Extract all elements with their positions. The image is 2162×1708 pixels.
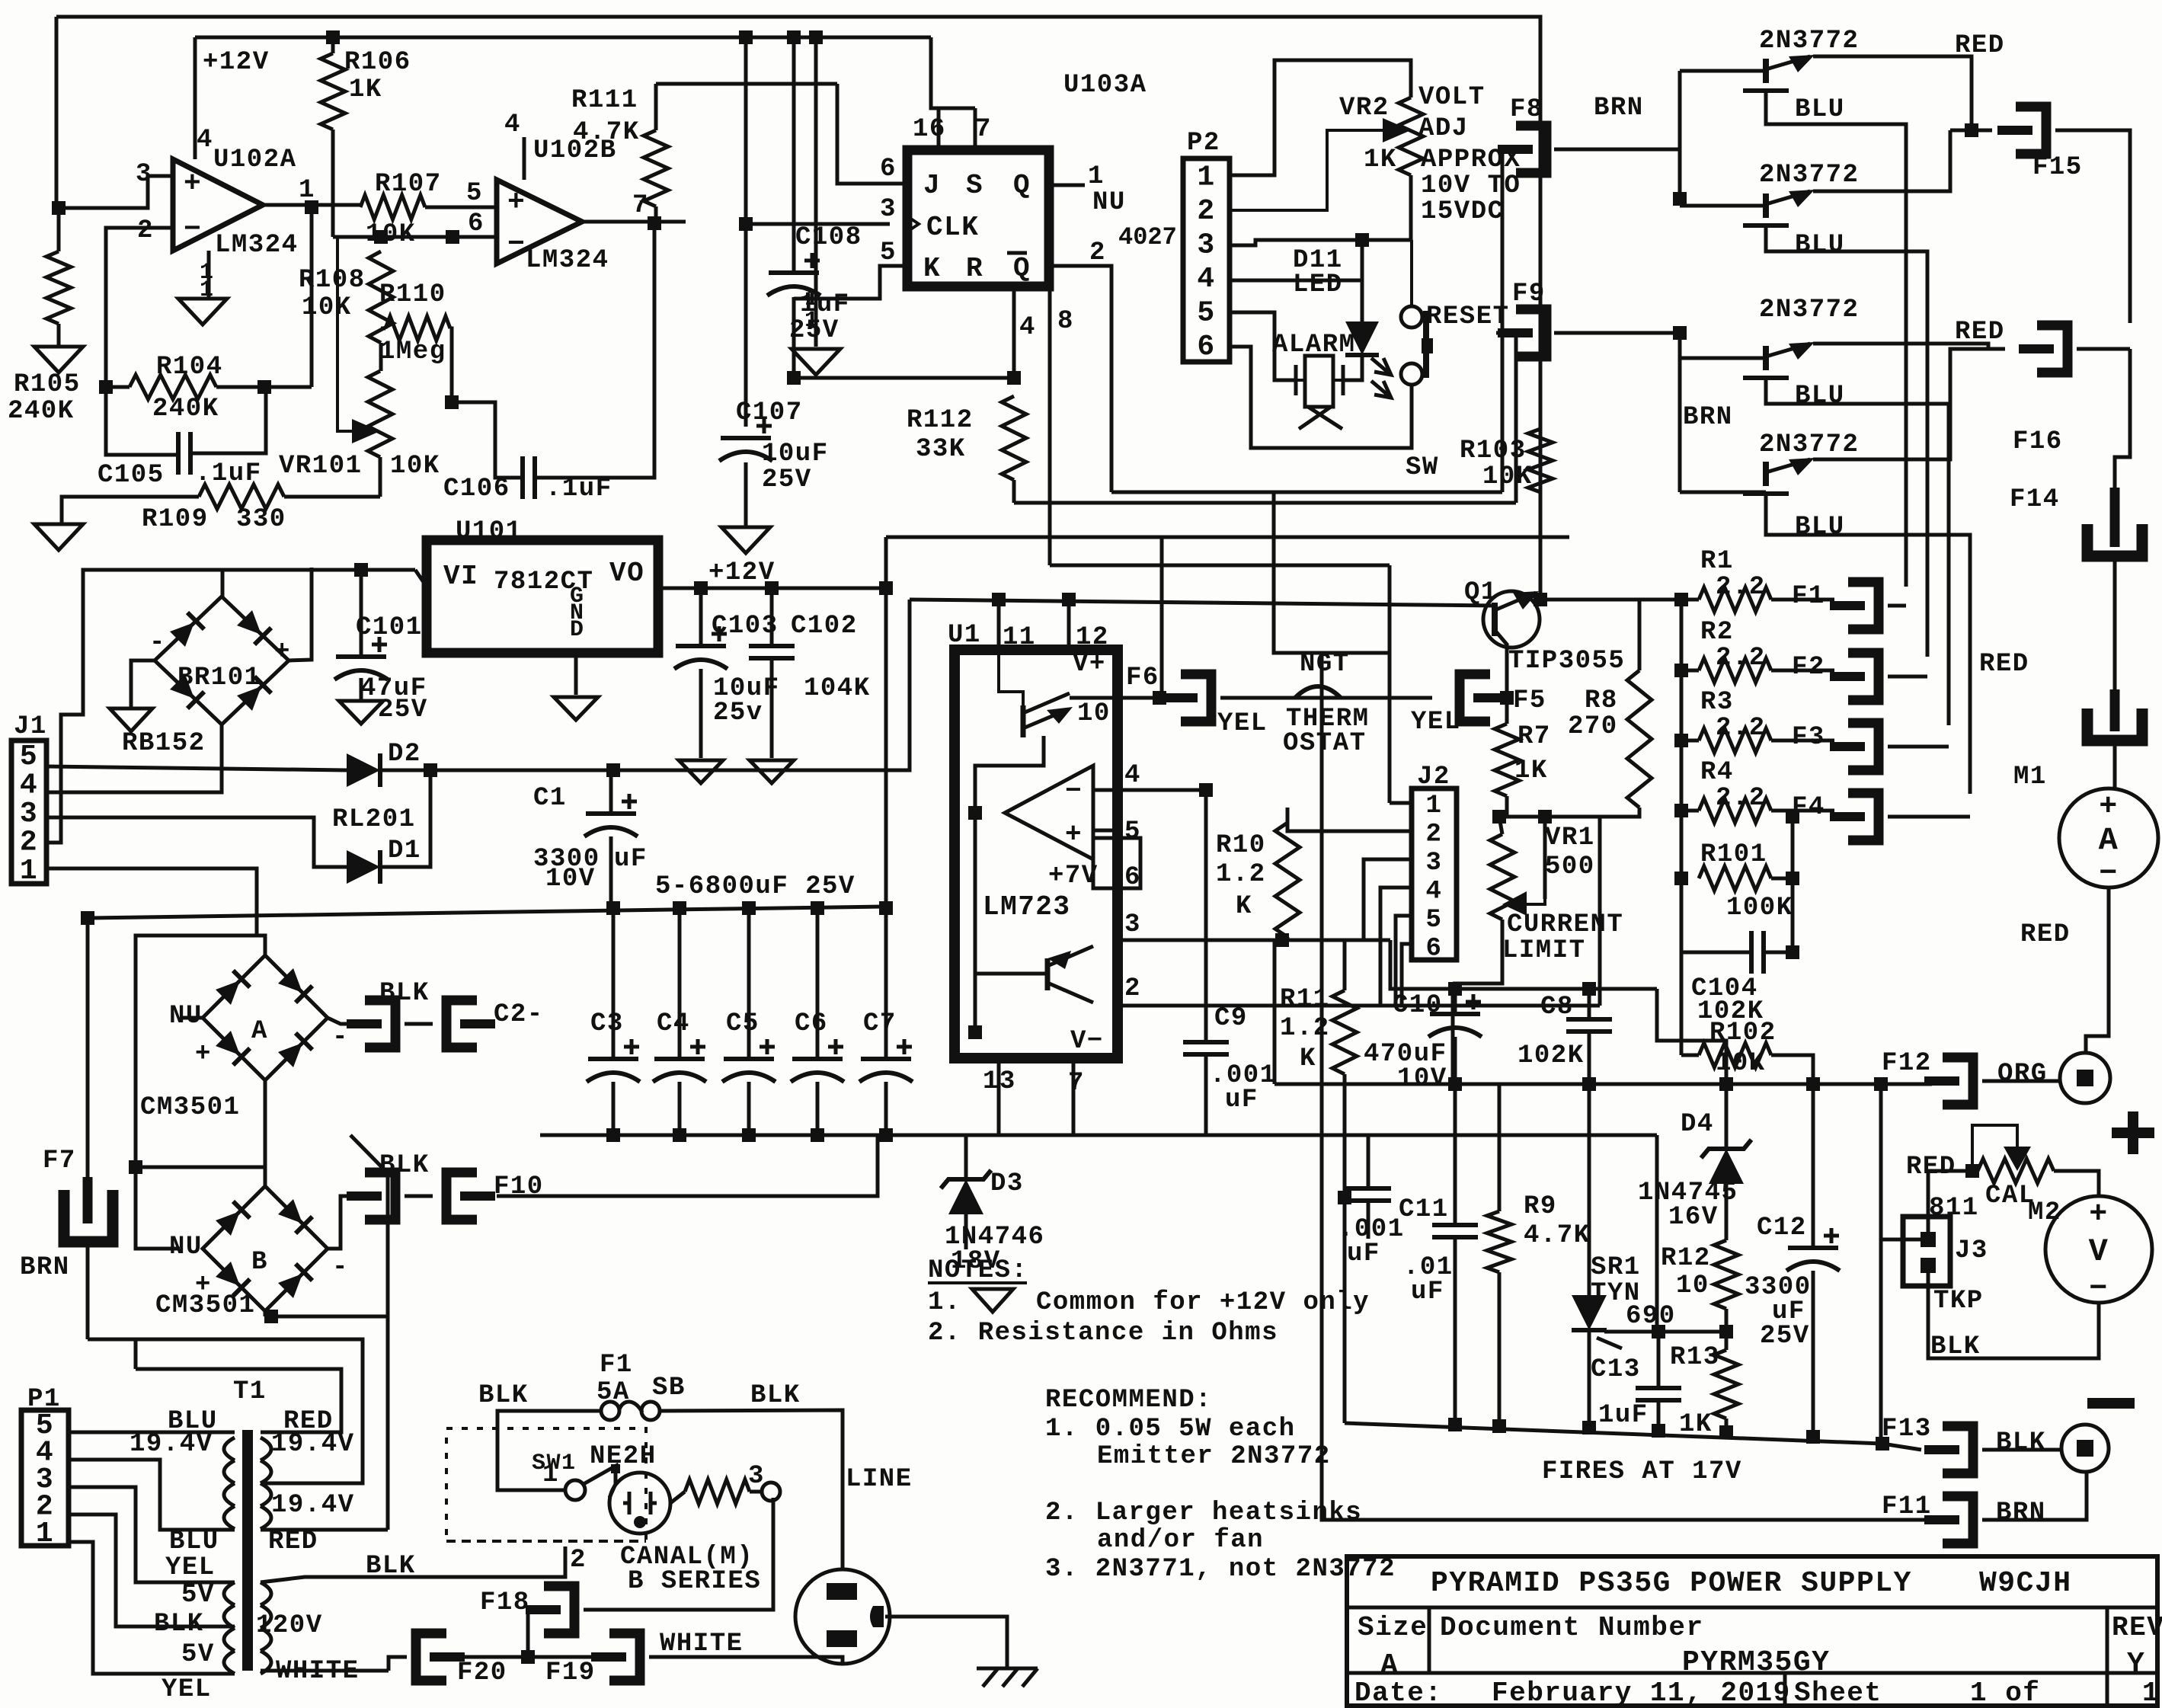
svg-text:V+: V+ xyxy=(1073,650,1106,679)
label BLU e3 xyxy=(1795,382,1845,411)
fuse F1 xyxy=(1830,582,1879,629)
wire C12 riser xyxy=(1812,1084,1815,1246)
svg-text:TKP: TKP xyxy=(1933,1287,1984,1316)
label 5V b xyxy=(181,1640,215,1669)
wire pin2 feedback xyxy=(106,228,178,455)
wire F20 out xyxy=(446,1655,528,1659)
wire C102 down xyxy=(770,658,774,758)
label F4 xyxy=(1792,793,1825,822)
label WHITE out xyxy=(0,0,1,1)
label F12 xyxy=(1882,1049,1932,1078)
wire neon left xyxy=(609,1484,616,1498)
svg-text:D1: D1 xyxy=(388,836,421,865)
title size xyxy=(1358,1612,1428,1643)
svg-text:330: 330 xyxy=(236,505,286,534)
svg-text:FIRES AT 17V: FIRES AT 17V xyxy=(1542,1457,1742,1486)
svg-text:RESET: RESET xyxy=(1426,302,1510,331)
label YEL u xyxy=(165,1553,216,1582)
label J1 xyxy=(14,712,47,741)
wire R8 top xyxy=(1638,600,1642,670)
wire M2 bottom loop xyxy=(1928,1265,2099,1358)
wire C107 riser xyxy=(744,224,748,427)
wire pin10 out xyxy=(1070,696,1159,700)
wire T1 sec tap xyxy=(91,1339,363,1483)
wire busB to U1 area xyxy=(613,600,910,770)
wire bridge A bottom xyxy=(264,1080,267,1167)
nodes bottom bus xyxy=(1448,1418,1889,1451)
svg-text:R105: R105 xyxy=(14,370,81,399)
wire brB node riser xyxy=(386,1316,390,1530)
capacitor C8 xyxy=(1566,1019,1612,1032)
svg-text:VR101: VR101 xyxy=(279,452,363,481)
label BLK sw2 xyxy=(750,1381,801,1410)
wire R111 riser xyxy=(654,84,658,130)
nodes +12V rail xyxy=(694,581,893,595)
label R7 value xyxy=(1514,756,1548,785)
svg-text:U101: U101 xyxy=(456,517,523,546)
label pin 13 xyxy=(983,1067,1016,1096)
svg-text:C1: C1 xyxy=(533,784,567,813)
label D3 xyxy=(990,1169,1024,1198)
resistor R111 xyxy=(644,130,668,206)
svg-text:F2: F2 xyxy=(1792,653,1825,682)
label pin 7 U1b xyxy=(1068,1069,1085,1098)
label C101 value1 xyxy=(360,674,427,703)
svg-text:YEL: YEL xyxy=(165,1553,216,1582)
label F9 xyxy=(1512,280,1546,309)
connector P1 xyxy=(21,1409,69,1550)
wire pin12 riser xyxy=(1067,600,1071,650)
svg-text:BLU: BLU xyxy=(169,1527,219,1556)
svg-text:BR101: BR101 xyxy=(178,664,261,692)
svg-text:NU: NU xyxy=(169,1233,203,1262)
svg-text:and/or fan: and/or fan xyxy=(1097,1526,1264,1555)
wire F18 out xyxy=(584,1498,773,1610)
label R1 value xyxy=(1716,573,1766,602)
svg-text:1: 1 xyxy=(1088,162,1105,191)
capacitor C9 xyxy=(1183,1042,1229,1054)
label NU a xyxy=(169,1002,203,1031)
fuse BLK b xyxy=(347,1172,395,1220)
label C1 value1 xyxy=(533,845,600,874)
svg-text:WHITE: WHITE xyxy=(660,1630,744,1658)
title w9cjh xyxy=(1979,1567,2072,1600)
U1 +7V text xyxy=(1048,862,1099,891)
wire pin7 riser xyxy=(974,108,977,150)
wire J2 pin6 xyxy=(1402,944,1412,1006)
wire C5 down xyxy=(747,1082,751,1135)
svg-text:Size: Size xyxy=(1358,1612,1428,1643)
label RB152 xyxy=(122,729,206,758)
wire bottom bus xyxy=(1345,1423,1882,1444)
wire D1 up to busB xyxy=(380,770,430,867)
label CAL xyxy=(1985,1182,2036,1211)
svg-text:U103A: U103A xyxy=(1063,71,1147,100)
svg-text:Y: Y xyxy=(2127,1648,2145,1681)
nodes R104 xyxy=(99,380,271,394)
label U102B pin11 a xyxy=(804,286,820,312)
wire busC negative xyxy=(540,1134,1657,1137)
label R10 K xyxy=(1236,892,1252,921)
wire SW to P2 pin6 loop xyxy=(1230,347,1412,448)
label C9 value xyxy=(1210,1061,1277,1090)
wire P1 pin4 xyxy=(69,1460,235,1530)
terminal post minus xyxy=(2061,1425,2109,1472)
svg-text:R10: R10 xyxy=(1216,831,1266,860)
wire base1 stub xyxy=(1680,69,1766,73)
wire R109 right lead xyxy=(284,495,380,499)
thermostat NGT xyxy=(1295,686,1341,698)
label pin 4 U102B xyxy=(504,110,521,139)
wire horiz y660 xyxy=(1014,501,1516,505)
svg-text:SW: SW xyxy=(1406,453,1439,482)
wire F1 left xyxy=(497,1411,601,1490)
label A xyxy=(251,1017,268,1046)
label RL201 xyxy=(332,805,416,834)
wire F7 drop xyxy=(86,918,90,1186)
svg-text:Q1: Q1 xyxy=(1464,578,1498,607)
svg-text:4: 4 xyxy=(504,110,521,139)
svg-text:F19: F19 xyxy=(545,1658,596,1687)
svg-text:Sheet: Sheet xyxy=(1794,1678,1882,1708)
svg-text:240K: 240K xyxy=(8,397,75,426)
label TKP xyxy=(1933,1287,1984,1316)
U101 texts xyxy=(443,558,644,643)
svg-text:4: 4 xyxy=(1124,761,1141,790)
label pin 7 xyxy=(632,191,649,220)
svg-text:uF: uF xyxy=(1225,1086,1259,1115)
label YEL d xyxy=(162,1675,212,1704)
label C104 value xyxy=(1697,997,1764,1026)
wire C5 riser xyxy=(747,908,751,1059)
label F7 xyxy=(43,1147,76,1175)
bridge rectifier A CM3501 xyxy=(203,955,328,1080)
label 19.4V lu xyxy=(130,1430,213,1459)
label C10 10V xyxy=(1397,1064,1447,1093)
label F11 xyxy=(1882,1492,1932,1521)
label LED xyxy=(1293,270,1343,299)
svg-text:R111: R111 xyxy=(571,86,638,115)
wire opamp top link xyxy=(975,736,1044,813)
wire C10 stub xyxy=(1454,989,1457,1014)
label F16 xyxy=(2013,427,2063,456)
wire brA bottom join xyxy=(136,1166,265,1169)
label pin 4 U1 xyxy=(1124,761,1141,790)
wire T1 sec bottom xyxy=(261,1528,388,1532)
wire R106 bottom lead xyxy=(331,130,335,237)
wire pin7 drop xyxy=(1072,1058,1076,1135)
wire J1 pin4 to bridge bottom xyxy=(46,724,222,792)
wire F1 right xyxy=(660,1410,843,1569)
wire C104 left xyxy=(1681,951,1751,955)
label R7 xyxy=(1518,722,1551,751)
label F13 xyxy=(1882,1415,1932,1444)
wire J1 pin1 out xyxy=(46,868,257,936)
svg-text:6: 6 xyxy=(468,210,485,238)
node base bus xyxy=(1673,192,1687,206)
wire R110 right drop xyxy=(450,328,452,402)
label TIP3055 xyxy=(1508,647,1625,676)
meter M1 ammeter xyxy=(2059,788,2158,891)
svg-text:F6: F6 xyxy=(1126,664,1159,692)
wire left drop b xyxy=(134,1341,138,1369)
label pin 6 xyxy=(468,210,485,238)
label D4 part xyxy=(1638,1179,1738,1207)
label ADJ xyxy=(1418,114,1469,143)
label R103 value xyxy=(1482,462,1533,491)
svg-text:J3: J3 xyxy=(1955,1236,1988,1265)
wire C108 riser xyxy=(792,37,796,270)
label 10K above bus xyxy=(0,0,1,1)
label pin 1 out xyxy=(299,176,315,205)
nodes positive rail xyxy=(1448,1077,1888,1091)
label M1 xyxy=(2013,763,2047,792)
label C106 xyxy=(443,475,510,504)
wire brB to T1 riser xyxy=(271,1315,388,1319)
label C4 xyxy=(657,1009,690,1038)
label R101 xyxy=(1700,840,1767,869)
resistor R104 xyxy=(130,375,216,399)
svg-text:LED: LED xyxy=(1293,270,1343,299)
wire U102B output pin7 xyxy=(582,220,686,224)
wire Qbar pin2 xyxy=(1049,266,1111,492)
buzzer ALARM xyxy=(1287,356,1345,429)
label C8 xyxy=(1540,993,1574,1022)
label D4 volt xyxy=(1668,1203,1719,1232)
wire R9 riser xyxy=(1498,1084,1502,1211)
capacitor C106 xyxy=(523,456,535,499)
label BLK a xyxy=(379,979,430,1008)
label plus b xyxy=(195,1271,212,1300)
op-amp U102A xyxy=(173,159,263,251)
wire R1 lead xyxy=(1681,598,1699,602)
svg-text:13: 13 xyxy=(983,1067,1016,1096)
svg-text:C10: C10 xyxy=(1393,991,1443,1020)
wire F2 out xyxy=(1888,675,1927,679)
label C108 value1 xyxy=(800,290,850,319)
svg-text:1.2: 1.2 xyxy=(1216,860,1266,889)
wire R11 bottom lead xyxy=(1343,1074,1347,1423)
wire bridge A top loop xyxy=(136,936,265,1167)
wire F20 white lead xyxy=(389,1657,407,1671)
svg-text:10uF: 10uF xyxy=(762,440,829,469)
label R109 value xyxy=(236,505,286,534)
label P2 xyxy=(1187,129,1220,158)
svg-text:F14: F14 xyxy=(2010,485,2060,514)
wire U101 in wire xyxy=(415,570,427,587)
nodes R101 xyxy=(1786,872,1799,959)
node pin4 xyxy=(1199,783,1213,797)
wire horiz y646 xyxy=(1111,491,1502,494)
wire CAL to M2 xyxy=(2054,1171,2099,1196)
label R8 xyxy=(1585,686,1618,715)
svg-text:LIMIT: LIMIT xyxy=(1502,936,1586,965)
wire P2 pin1 to VR2 top xyxy=(1230,60,1411,175)
svg-text:11: 11 xyxy=(1003,623,1036,652)
ground below BR101 xyxy=(110,708,152,731)
nodes busA caps xyxy=(606,901,893,915)
wire ORG to post xyxy=(1982,1079,2060,1083)
label pin 5 xyxy=(466,179,483,208)
svg-text:2.2: 2.2 xyxy=(1716,784,1766,813)
node C8 top xyxy=(1582,982,1596,996)
wire C1 down xyxy=(609,836,613,913)
svg-text:C3: C3 xyxy=(590,1009,624,1038)
label BRN f11 xyxy=(1996,1498,2046,1527)
T1 winding right lower 120V xyxy=(261,1582,271,1674)
fuse BLK a xyxy=(347,1000,395,1048)
svg-text:10K: 10K xyxy=(1482,462,1533,491)
svg-text:C105: C105 xyxy=(98,461,165,490)
wire base bus Q1Q2 xyxy=(1678,71,1682,206)
svg-text:.1uF: .1uF xyxy=(545,475,612,504)
wire minus trunk xyxy=(1322,653,1929,1520)
label 1 sw xyxy=(542,1460,559,1489)
label BLK f13 xyxy=(1996,1428,2046,1457)
svg-text:B: B xyxy=(251,1248,268,1277)
capacitor C105 xyxy=(178,432,190,475)
svg-text:VO: VO xyxy=(609,558,644,589)
wire R109 left xyxy=(62,497,199,524)
node base bus2 xyxy=(1673,326,1687,340)
wire lower tr base xyxy=(975,972,1047,976)
wire Q3 collector xyxy=(1813,344,2005,349)
wire pin6 rail xyxy=(333,235,497,239)
node Q1 collector xyxy=(1534,593,1547,606)
svg-text:C13: C13 xyxy=(1591,1355,1641,1384)
node F15 in xyxy=(1965,123,1978,137)
label minus b xyxy=(332,1253,349,1282)
wire R108 bottom to VR101 xyxy=(379,343,383,371)
potentiometer VR2 xyxy=(1399,98,1423,175)
fuse F10 clip xyxy=(446,1172,495,1220)
label D3 part xyxy=(945,1223,1044,1252)
fuse F5 xyxy=(1460,674,1508,721)
wire T1 white out xyxy=(261,1669,389,1673)
svg-text:-: - xyxy=(332,1253,349,1282)
node opamp left xyxy=(968,806,982,820)
nodes R7 bottom xyxy=(1492,810,1552,824)
node C10 top xyxy=(1448,982,1462,996)
label 5-6800uF 25V xyxy=(655,872,856,901)
fuse F20 xyxy=(416,1633,465,1681)
label C103 xyxy=(712,612,779,641)
label U103A xyxy=(1063,71,1147,100)
wire C10 riser xyxy=(1390,940,1657,989)
svg-text:RED: RED xyxy=(1906,1153,1956,1182)
connector J1 xyxy=(11,740,46,888)
terminal 3 xyxy=(762,1483,780,1501)
label pin 11 xyxy=(1003,623,1036,652)
title size A xyxy=(1380,1649,1399,1682)
label NU b xyxy=(169,1233,203,1262)
wire J2 pin3 xyxy=(1364,859,1412,940)
svg-text:LINE: LINE xyxy=(846,1465,913,1494)
svg-text:RECOMMEND:: RECOMMEND: xyxy=(1045,1386,1212,1415)
neon lamp NE2H xyxy=(609,1473,670,1534)
wire U102A output xyxy=(263,203,360,207)
svg-text:+7V: +7V xyxy=(1048,862,1099,891)
svg-text:C2-: C2- xyxy=(494,1000,544,1029)
label C10 value xyxy=(1364,1040,1447,1069)
label VR2 xyxy=(1339,94,1390,123)
label R1 xyxy=(1700,547,1734,576)
wire R2 lead xyxy=(1681,669,1699,673)
label C1 10V xyxy=(545,865,596,894)
label RED cal xyxy=(1906,1153,1956,1182)
svg-text:F1: F1 xyxy=(1792,582,1825,611)
svg-text:2: 2 xyxy=(137,216,154,245)
IC U1 LM723 box xyxy=(955,650,1118,1058)
wire Q1 collector xyxy=(1813,56,1972,130)
label RESET xyxy=(1426,302,1510,331)
label +12V out xyxy=(708,558,776,587)
wire F16 down to F14 xyxy=(2115,349,2130,491)
label D11 xyxy=(1293,246,1343,275)
label C12 uF xyxy=(1772,1297,1805,1326)
wire +12V top rail xyxy=(195,36,931,40)
svg-text:RB152: RB152 xyxy=(122,729,206,758)
svg-text:R7: R7 xyxy=(1518,722,1551,751)
wire C13 drop xyxy=(1657,1332,1661,1388)
meter M2 voltmeter xyxy=(2045,1196,2152,1307)
pins 5-6 link box xyxy=(1093,838,1140,888)
ground below C103 xyxy=(679,760,723,783)
label BRN left xyxy=(20,1253,70,1282)
wire R112 bottom xyxy=(1012,480,1016,503)
label pin11 a xyxy=(200,260,215,286)
wire C8 riser xyxy=(1588,989,1591,1019)
VR2 wiper arrow xyxy=(1230,118,1411,210)
fuse F13 xyxy=(1924,1426,1973,1473)
label BR101 xyxy=(178,664,261,692)
U1 LM723 text xyxy=(983,891,1071,923)
label C1 xyxy=(533,784,567,813)
capacitor C1 xyxy=(584,794,638,836)
wire C6 down xyxy=(816,1082,820,1135)
label 120V xyxy=(256,1611,323,1640)
wire pin8 drop xyxy=(1048,286,1052,565)
svg-text:3: 3 xyxy=(1426,849,1443,878)
wire R104 right lead xyxy=(216,385,312,389)
fuse F8 xyxy=(1498,126,1546,173)
wire busA raw xyxy=(88,907,886,918)
U1 internal transistor xyxy=(999,650,1073,737)
LED D11 xyxy=(1345,321,1391,398)
wire P1 pin2 xyxy=(69,1514,235,1626)
svg-text:F20: F20 xyxy=(457,1658,507,1687)
wire F8 feed xyxy=(1502,149,1516,492)
svg-text:4: 4 xyxy=(1197,263,1215,296)
wire SR1 riser xyxy=(1588,1084,1591,1295)
label BLU e4 xyxy=(1795,513,1845,542)
wire link to C2- xyxy=(405,1022,433,1026)
label VOLT xyxy=(1418,83,1486,112)
label R11 value xyxy=(1280,1014,1330,1043)
wire base2 stub xyxy=(1680,204,1766,208)
svg-text:R108: R108 xyxy=(299,266,366,295)
zener diode D3 1N4746 xyxy=(941,1170,991,1214)
wire F4 node drop xyxy=(1791,817,1795,952)
wire T1 right riser xyxy=(350,1135,388,1530)
svg-text:BLK: BLK xyxy=(478,1381,529,1410)
label T1 xyxy=(233,1377,267,1406)
wire R104 left lead xyxy=(106,385,130,389)
label R4 xyxy=(1700,758,1734,787)
wire T1 120V top BLK xyxy=(261,1546,565,1582)
U1 lower transistor xyxy=(1047,946,1093,1006)
wire R102 col xyxy=(1680,878,1684,952)
